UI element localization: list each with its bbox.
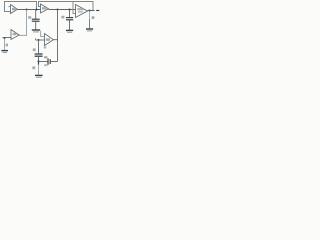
wire junction to C6 [39,61,48,63]
node dot F (x=38.5,40) [38,39,40,41]
label C2 [61,16,64,19]
wire U4 non-inverting input [36,39,45,41]
minus sign U1 [8,5,10,8]
label R5 [44,46,46,48]
capacitor C1 plates [32,18,40,20]
wire U2 out to U5 [49,9,76,11]
wire top rail loop B (global feedback) [39,2,94,11]
wire U4 inverting stub to ground bar [41,31,45,37]
op-amp U1 [11,5,18,14]
wire U3 input [3,37,12,39]
op-amp U5 (output stage) [76,5,88,18]
output terminal dash [96,10,99,12]
value label under C6 [44,64,48,66]
node dot A (x=26.5) [26,9,28,11]
stub tick at x=35.5 [35,38,37,40]
ground G4 [1,50,8,52]
op-amp U2 [41,4,49,13]
node dot D (x=69.5) [69,9,71,11]
wire top rail loop A (op-amp U1 feedback) [5,2,37,12]
wire U5 output [88,10,95,12]
wire C1 to ground [35,22,37,30]
wire main signal U1 out to U2 in [18,9,41,11]
node dot B (x=36.5) [36,9,38,11]
capacitor C2 plates [66,17,73,19]
label VS [6,44,8,47]
ground G1 [32,29,40,31]
wire C2 to ground [69,20,71,29]
ground G2 [66,29,73,31]
wire node F down to C5 [38,40,40,53]
capacitor CL lead [89,11,91,20]
label R3 [32,66,35,69]
wire vertical from node A down to U3 output [19,10,26,36]
capacitor C2 lead [69,10,71,18]
wire C5 down to junction [38,57,40,60]
node dot E (x=89.5) [89,10,91,12]
label C1 [28,16,31,19]
label inside U4 [46,38,50,40]
op-amp U4 (mid) [45,34,54,46]
label inside U2 [42,7,46,9]
node dot C (x=57.5) [57,9,59,11]
label C6 [44,56,47,58]
capacitor C1 lead [35,10,37,19]
wire U4 output to bus [53,39,57,41]
capacitor C6 plates [47,58,49,64]
ground G5 [35,74,43,76]
label CL [92,16,95,19]
label inside U3 [13,33,17,35]
wire VS to ground [4,38,6,50]
label inside U5 [77,8,83,10]
wire vertical bus x=57.5 [57,10,59,62]
wire junction down to ground [38,65,40,75]
node dot G (x=38.5,61.5) [38,61,40,63]
capacitor C5 plates [35,53,43,55]
label C5 [33,48,36,51]
wire C6 to bus [51,61,58,63]
source VS node dot [4,37,6,39]
ground G3 [86,28,93,30]
op-amp U3 (lower left) [11,30,19,40]
wire feedback drop to U5 inverting input (crossover) [73,2,76,14]
label inside U1 [12,8,16,10]
